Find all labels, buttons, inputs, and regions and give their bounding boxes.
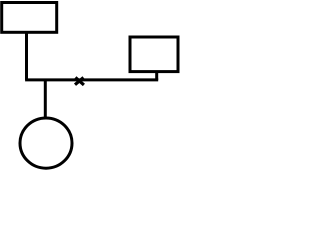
circle (female) bottom: [20, 118, 72, 168]
wire: horizontal union line: [25, 78, 158, 81]
X separation mark on union line: [75, 77, 84, 85]
wire: vertical child drop to circle: [44, 80, 47, 120]
rectangle (male) right: [130, 37, 178, 72]
rectangle (male) top-left: [2, 3, 57, 33]
wire: vertical drop from rect1 bottom center: [25, 33, 28, 80]
wire: jog up to rect2 bottom: [155, 72, 158, 80]
